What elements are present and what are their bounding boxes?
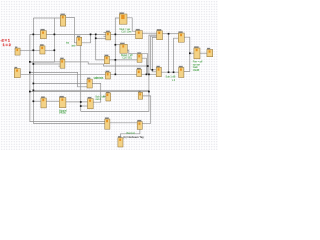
wire row y=61.9 into M1 pin1 <box>30 61 60 63</box>
wire bus line y=91.5 trunk A to x=148.9 <box>30 91 149 93</box>
wire bundle x=152.3 T3 stub y=37.4 down into R1 pin2 y=71.8 <box>152 37 156 71</box>
component N1 <box>77 36 82 46</box>
svg-text:out 2: out 2 <box>96 98 102 101</box>
component C1 top-left IC <box>60 13 65 26</box>
wire T1 output row to T2 <box>111 33 136 35</box>
wire vertical x=148.9 from T3 stub down to y=111.4 then left to x=80.7 <box>81 35 157 111</box>
wire P1 output over Q1 to bundle x=147.7 down to row y=74.3 <box>127 50 147 74</box>
wire T2 output to T3 y=33.2 <box>142 32 156 34</box>
wire R1 output to S2 input y=72.2 <box>161 71 178 73</box>
svg-text:xfer a: xfer a <box>95 76 102 79</box>
svg-text:CLK 10m: CLK 10m <box>121 31 131 34</box>
component Y1 <box>87 77 92 88</box>
wire bundle x=150.5 T3 stub y=36.2 down into R1 pin1 y=69.8 <box>151 36 157 70</box>
component Y2 <box>88 97 94 109</box>
svg-text:640Bu: 640Bu <box>59 112 67 115</box>
wire row y=74.3 Z2 right pin to Q2 left pin <box>110 73 136 75</box>
component B1 bottom <box>105 117 110 129</box>
svg-text:Pwr Ltd: Pwr Ltd <box>127 132 136 135</box>
component R1 <box>156 66 161 77</box>
component T3 <box>157 29 163 40</box>
svg-text:ClkdB: ClkdB <box>193 69 200 72</box>
wire D1 left pin down vertical x=115.3 branching to P1 and ending on row y=74.3 <box>115 18 119 74</box>
svg-text:antr: antr <box>72 45 76 48</box>
junction dots on x=115.3 D1 vertical <box>115 44 117 46</box>
wire bus line y=90.3 trunk B to x=148.9 <box>33 89 148 91</box>
component B3 bottom small <box>118 136 123 147</box>
wire Q1 output corner x=146.4 down to row y=74.3 <box>142 58 146 74</box>
component S1 small <box>138 91 142 100</box>
wire long row y=74.3 from L2 to Z2 left pin <box>21 73 106 75</box>
component P1 <box>120 43 127 54</box>
junction dot bus end x=148.9 <box>148 91 150 93</box>
wire C1 right pin down via x=74.4 into N1 input <box>66 17 77 42</box>
wire Y1 right to Y2 right loop via x=100.7 <box>92 83 100 102</box>
wire row y=64.0 into M1 pin2 <box>33 63 60 65</box>
component T1 <box>106 30 111 40</box>
component B2 bottom <box>137 120 142 130</box>
wire T1 lower-left pin row y=38.3 <box>96 37 106 39</box>
svg-text:-2 = 1: -2 = 1 <box>1 38 10 42</box>
component L1 small input <box>15 46 20 55</box>
component V2 mid small (on bus) <box>106 91 111 101</box>
component L2 input <box>14 67 20 78</box>
wire vertical x=173.5 from T4 lower pin down to S input row <box>174 38 179 72</box>
wire row y=83.4 trunk B to Y1 pin1 <box>33 82 87 84</box>
svg-text:1 = 2: 1 = 2 <box>3 43 11 47</box>
wire V2 left pin stub <box>103 95 106 97</box>
svg-text:CLK SEL: CLK SEL <box>122 57 133 60</box>
wire stub to Y2 pin2 y=106 from trunk x=80.7 <box>81 105 88 107</box>
component T4 <box>178 31 184 42</box>
component Q2 <box>137 68 142 77</box>
junction dots on x=95.7 branch <box>95 37 97 39</box>
component G2 <box>207 48 213 57</box>
wire Z1 output to Q1 left pin y=59.9 <box>109 59 137 61</box>
wire top feed into C1 left pin y=18 <box>33 17 60 19</box>
component S2 <box>179 66 184 78</box>
wire W1 to X1 y=101.2 <box>46 100 59 102</box>
junction dots X-Y2 rows on trunk x=80.7 <box>80 101 82 103</box>
wire X1 to Y2 pin1 y=101.9 <box>66 101 88 103</box>
svg-text:(A) Interleave Tag: (A) Interleave Tag <box>123 135 144 139</box>
junction dots on trunk B <box>33 34 35 36</box>
junction dots on main row y=34.4 <box>54 34 56 36</box>
wire vertical trunk x=80.7 from N1 bottom to y=111.4 <box>80 46 82 112</box>
wire M1 output jog passing under Z1 to bundle x=147.7 <box>65 62 148 66</box>
component Q1 <box>137 52 142 62</box>
junction dot M jog joins bundle <box>147 65 149 67</box>
svg-text:x d: x d <box>172 79 176 82</box>
junction dots on trunk A <box>29 61 31 63</box>
component Z1 <box>104 54 109 63</box>
component V1 <box>40 44 45 54</box>
junction dot V1 output corner <box>54 49 56 51</box>
svg-text:Sub 3 dB: Sub 3 dB <box>95 95 105 98</box>
component G1 <box>194 46 200 59</box>
wire T4 output right then down x=189.8 to S2 right pin <box>184 37 190 71</box>
wire row y=72.4 from trunk A down x=77.6 into Y1 pin2 <box>30 72 87 86</box>
wire trunk B vertical x=33.4 from top corner down then right into B1 pin2 <box>33 18 104 123</box>
wire branch into P1 left pin y=44.7 <box>115 44 120 46</box>
wire row y=74.3 Q2 right pin to R1 pin3 <box>142 73 157 75</box>
component X1 <box>59 96 66 108</box>
wire T3 output to T4 y=33.7 <box>163 33 179 35</box>
wire row y=101.2 trunk B to W1 <box>33 100 41 102</box>
component D1 mosfet <box>119 12 127 24</box>
component T2 <box>136 29 143 39</box>
component Z2 <box>105 70 110 79</box>
wire branch into G1 input y=53.2 <box>190 52 194 54</box>
wire D1 output right then down x=132.2 into T2 upper pin y=31.2 <box>127 18 136 31</box>
svg-text:inp: inp <box>66 42 70 44</box>
wire vertical x=54.4 from C1 feed down to M-row corner <box>30 18 55 62</box>
wire main row y=34.4 trunk to T1 <box>30 33 106 35</box>
junction dot bundle crossing R pin row <box>152 69 154 71</box>
component U1 <box>40 29 46 39</box>
wire trunk A vertical x=29.9 down then right into B1 pin1 <box>30 34 105 121</box>
wire row y=50.7 L1 to V1 to x=54.4 <box>20 49 54 51</box>
wire G1 output to G2 input y=53.2 <box>200 52 207 54</box>
wire N1 output right then up x=90.5 to main row <box>82 34 91 42</box>
wire S1 output right then down x=150.7 to B2 output row <box>142 96 150 123</box>
junction dots bundle at row y=74.3 <box>146 74 148 76</box>
component M1 <box>60 57 65 68</box>
wire S1 top pin to bus line y=91.5 <box>139 91 141 94</box>
wire vertical x=168.5 from T3 row down to S input row <box>168 34 170 72</box>
junction dots T3 row branch and S input row <box>168 33 170 35</box>
wire M1 third left pin stub <box>58 65 60 67</box>
wire T1 left pin stubs <box>104 31 106 33</box>
wire B3 top pin up then right to B2 bottom pin <box>121 129 140 137</box>
component W1 <box>41 96 46 108</box>
wire B1 output to B2 input y=122.2 <box>110 122 137 124</box>
wire vertical x=95.7 from main row down into Z1 left pin <box>96 34 105 60</box>
